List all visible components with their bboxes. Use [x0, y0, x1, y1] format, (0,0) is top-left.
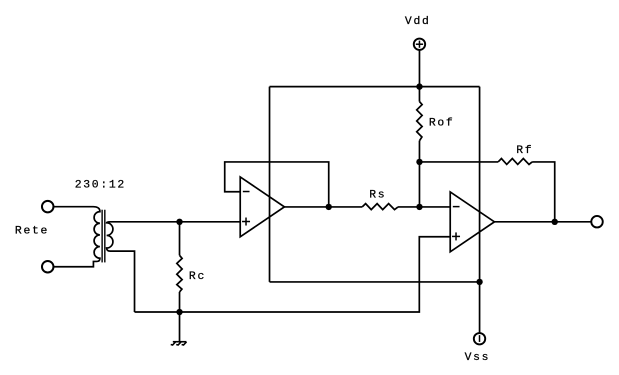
svg-text:Rf: Rf: [516, 145, 533, 157]
svg-text:Vdd: Vdd: [405, 16, 431, 28]
svg-text:Rof: Rof: [429, 118, 455, 130]
svg-text:230:12: 230:12: [75, 180, 126, 192]
svg-text:Rete: Rete: [15, 226, 49, 238]
svg-text:Vss: Vss: [465, 352, 491, 364]
svg-text:Rc: Rc: [189, 271, 206, 283]
svg-text:Rs: Rs: [369, 190, 386, 202]
